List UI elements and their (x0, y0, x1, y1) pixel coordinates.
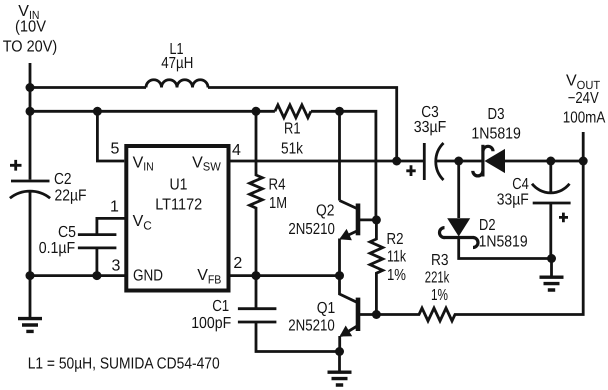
junction dot D2 return / ground 3 (547, 254, 556, 263)
svg-text:100mA: 100mA (563, 109, 606, 126)
svg-text:C2: C2 (54, 171, 72, 188)
capacitor C1 (238, 276, 340, 352)
wire VSW pin 4 rail (231, 160, 397, 163)
svg-text:R1: R1 (284, 121, 301, 138)
junction dot Q1 base / R2 bottom (372, 310, 381, 319)
capacitor C2 (10, 88, 50, 276)
junction dot C3/D3/D2 node (454, 157, 463, 166)
svg-text:(10V: (10V (15, 19, 46, 36)
svg-text:33µF: 33µF (497, 191, 529, 208)
svg-text:TO 20V): TO 20V) (3, 39, 58, 56)
wire to ground 2 (338, 352, 341, 372)
svg-text:2: 2 (233, 255, 242, 272)
capacitor C4 (532, 161, 571, 259)
resistor R3 (376, 161, 583, 321)
svg-text:Q1: Q1 (317, 300, 336, 317)
polarity + C4 (559, 213, 568, 223)
inductor L1 (146, 80, 208, 88)
svg-text:5: 5 (111, 141, 120, 158)
junction dot GND rail left (26, 271, 35, 280)
resistor R2 (370, 220, 383, 315)
svg-text:U1: U1 (170, 176, 188, 193)
junction dot Q2 base / R2 top (372, 215, 381, 224)
node VOUT label (563, 73, 606, 127)
svg-text:R3: R3 (431, 252, 449, 269)
transistor Q2 (339, 201, 376, 276)
junction dot Q1 emitter / C1 return (335, 347, 344, 356)
diode D2 (440, 161, 552, 259)
svg-text:C1: C1 (212, 298, 229, 315)
junction dot R1 right / Q2 collector branch (335, 107, 344, 116)
svg-text:221k: 221k (425, 270, 450, 287)
wire VC pin 1 branch (97, 218, 126, 234)
wire VIN rail (30, 110, 275, 113)
svg-text:0.1µF: 0.1µF (39, 240, 76, 257)
svg-text:C5: C5 (58, 224, 76, 241)
junction dot VIN rail / terminal (26, 83, 35, 92)
svg-text:R4: R4 (269, 177, 286, 194)
polarity + C2 (10, 160, 22, 171)
wire top rail right of L1 to VSW node (208, 88, 397, 162)
junction dot VIN rail 2 (26, 107, 35, 116)
svg-text:1: 1 (110, 199, 119, 216)
junction dot VOUT node (579, 157, 588, 166)
svg-text:51k: 51k (281, 141, 304, 158)
svg-text:1%: 1% (387, 267, 406, 284)
junction dot C4 top (546, 157, 555, 166)
wire VIN terminal stub (29, 63, 32, 88)
wire top rail left of L1 (30, 86, 146, 89)
svg-text:47µH: 47µH (161, 55, 193, 72)
junction dot VSW node (392, 157, 401, 166)
svg-text:1N5819: 1N5819 (479, 234, 528, 251)
transistor Q1 (340, 276, 377, 352)
svg-text:1%: 1% (431, 287, 448, 304)
junction dot R4 top (252, 107, 261, 116)
svg-text:1M: 1M (269, 195, 287, 212)
wire to ground 3 (550, 259, 553, 277)
node VIN label (3, 3, 58, 56)
wire to ground 1 (29, 276, 32, 318)
svg-text:Q2: Q2 (316, 202, 335, 219)
ground symbol 1 (18, 319, 42, 332)
junction dot C5 bottom (92, 271, 101, 280)
svg-text:D3: D3 (488, 106, 505, 123)
svg-text:22µF: 22µF (55, 187, 87, 204)
wire R1 right to Q2 base branch (311, 111, 376, 220)
capacitor C3 (397, 143, 459, 180)
svg-text:3: 3 (112, 258, 121, 275)
svg-text:11k: 11k (387, 249, 407, 266)
capacitor C5 (78, 235, 117, 276)
svg-text:GND: GND (133, 267, 163, 284)
svg-text:2N5210: 2N5210 (288, 318, 335, 335)
svg-text:−24V: −24V (568, 90, 599, 107)
op-amp U1 box (126, 146, 228, 291)
svg-text:4: 4 (232, 142, 241, 159)
junction dot pin5 branch (93, 107, 102, 116)
svg-text:LT1172: LT1172 (155, 196, 202, 213)
polarity + C3 (406, 165, 415, 176)
ground symbol 2 (328, 372, 352, 385)
junction dot VFB / R4-C1 (252, 271, 261, 280)
diode D3 (459, 145, 551, 177)
svg-text:100pF: 100pF (191, 315, 231, 332)
junction dot VFB / Q1 collector (335, 271, 344, 280)
svg-text:1N5819: 1N5819 (471, 126, 521, 143)
resistor R4 (250, 111, 263, 275)
svg-text:2N5210: 2N5210 (288, 221, 335, 238)
wire VFB pin 2 rail (231, 274, 340, 277)
svg-text:L1 = 50µH, SUMIDA CD54-470: L1 = 50µH, SUMIDA CD54-470 (28, 355, 220, 372)
wire Q2 collector vertical (338, 111, 341, 200)
wire pin 5 branch (97, 111, 124, 161)
svg-text:D2: D2 (479, 217, 496, 234)
wire output rail C4 to VOUT (551, 160, 583, 163)
wire GND rail (30, 274, 126, 277)
svg-text:33µF: 33µF (414, 119, 447, 136)
svg-text:R2: R2 (387, 231, 404, 248)
wire VOUT terminal stub (582, 132, 585, 161)
resistor R1 (275, 105, 311, 118)
ground symbol 3 (540, 277, 564, 290)
